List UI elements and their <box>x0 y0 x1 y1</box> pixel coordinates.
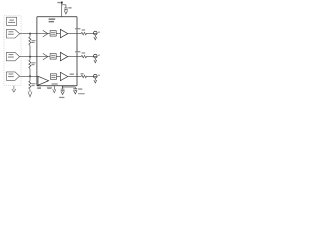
wire (A4 output to R6) <box>68 76 81 78</box>
jack P2 (right output) with ground arrow <box>94 54 98 63</box>
pin LIN (entry arrow ch1) <box>43 30 48 37</box>
value label R5 100Ohm <box>82 52 86 53</box>
op-amp A4 (ch3) <box>60 72 67 80</box>
resistor R2 100k <box>29 57 31 77</box>
jack P1 (left output) with ground arrow <box>94 31 98 40</box>
capacitor C1 (supply bypass) with ground <box>62 5 68 14</box>
wire (bypass to C3) <box>63 86 76 88</box>
op-amp A1 (ch1) <box>60 29 67 37</box>
pin HPOUT label <box>70 74 78 75</box>
wire (R4 to jack P1) <box>87 33 97 35</box>
label S <box>98 75 100 76</box>
wire (input S) <box>20 75 38 77</box>
value label R3 100kOhm <box>32 83 36 86</box>
jack P3 (sub output) with ground arrow <box>94 74 98 83</box>
op-amp A2 (ch2) <box>60 52 67 60</box>
wire (supply to VDD pin) <box>61 3 63 17</box>
value label C2 0.1uF <box>59 97 64 98</box>
value label U1 part number <box>49 18 56 22</box>
pin RIN (entry arrow ch2) <box>43 53 48 60</box>
value label R1 100kOhm <box>32 40 36 43</box>
value label C1 1uF <box>68 7 71 8</box>
value label R6 100Ohm <box>81 73 84 74</box>
block MPU/decoder <box>7 17 17 25</box>
resistor R6 (ch3 output) <box>81 75 87 77</box>
resistor R4 (ch1 output) <box>81 32 87 34</box>
pin LOUT label <box>75 28 80 29</box>
resistor R5 (ch2 output) <box>81 55 87 57</box>
value label R2 100kOhm <box>32 62 36 65</box>
source block J3 (line out sub, tagged) <box>6 72 19 80</box>
resistor R1 100k <box>29 34 31 57</box>
value label R4 100Ohm <box>82 29 86 30</box>
wire (input L) <box>20 33 50 35</box>
wire (G1 to A1) <box>56 33 60 35</box>
capacitor C3 10uF with ground <box>73 87 77 94</box>
pin BYPASS wire <box>62 86 64 89</box>
wire (A2 output to R5) <box>68 56 81 58</box>
gain block G2 (volume ch2) <box>50 54 56 60</box>
gain block G1 (volume ch1) <box>50 31 56 36</box>
wire (G2 to A2) <box>56 56 60 58</box>
node D (bypass junction) <box>62 86 64 88</box>
wire (R6 to jack P3) <box>87 76 97 78</box>
ground (source enclosure) <box>12 86 16 92</box>
wire (G3 to A4) <box>57 76 61 78</box>
pin ROUT label <box>75 51 80 52</box>
dashed enclosure (signal source unit) <box>4 16 21 86</box>
value label C3 10uF <box>78 88 82 89</box>
op-amp A3 (headphone amp ch3) <box>38 76 49 85</box>
ground (bias chain) <box>28 92 32 97</box>
node A (junction on input L) <box>29 33 31 35</box>
source block J1 (line out left, tagged) <box>6 30 19 38</box>
figure number <box>78 93 85 94</box>
op-amp U1 (IC outline) <box>37 17 77 86</box>
resistor R3 100k <box>29 76 31 92</box>
label L <box>98 32 100 33</box>
capacitor C2 0.1uF with ground <box>61 89 65 94</box>
node B (junction on input R) <box>29 56 31 58</box>
label R <box>98 55 100 56</box>
node C (junction on input S) <box>29 75 31 77</box>
wire (R5 to jack P2) <box>87 56 97 58</box>
wire (A1 output to R4) <box>68 33 81 35</box>
wire (input R) <box>20 56 50 58</box>
gain block G3 (volume ch3) <box>50 74 56 80</box>
node 5V (supply terminal) <box>57 2 60 3</box>
pin GND with ground arrow <box>53 86 56 93</box>
pin labels along U1 bottom edge <box>37 83 58 89</box>
source block J2 (line out right, tagged) <box>6 52 19 60</box>
